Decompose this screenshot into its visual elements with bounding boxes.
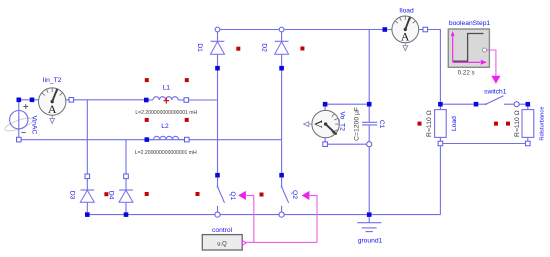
svg-text:Iload: Iload — [399, 7, 414, 14]
red marker Rdisturbance — [506, 122, 510, 126]
svg-text:control: control — [212, 227, 233, 234]
Q1 top pin — [215, 173, 220, 178]
Q2 bottom pin — [279, 212, 284, 217]
svg-text:0.22 s: 0.22 s — [458, 70, 475, 77]
red marker D2 — [300, 47, 304, 51]
diode D2 — [275, 32, 289, 66]
Rdisturbance top pin — [526, 102, 531, 107]
red marker Q1 — [196, 192, 200, 196]
red marker L1 top-left — [145, 78, 149, 82]
D4 top pin — [124, 174, 129, 179]
junction capacitor bottom node — [367, 142, 372, 147]
svg-text:D1: D1 — [196, 43, 203, 52]
wire Load bottom to Rdisturbance bottom — [443, 143, 528, 145]
block control — [202, 235, 246, 250]
wire ammeter to L1 — [74, 99, 147, 101]
L1 right pin — [184, 98, 189, 103]
svg-text:L=2.200000000000001 mH: L=2.200000000000001 mH — [135, 110, 197, 116]
svg-text:booleanStep1: booleanStep1 — [449, 20, 491, 27]
switch1 left pin — [474, 102, 479, 107]
Q1 bottom pin — [215, 212, 220, 217]
svg-text:C=1200 µF: C=1200 µF — [354, 107, 361, 141]
voltmeter bottom pin — [323, 142, 328, 147]
wire voltmeter bottom to capacitor bottom — [328, 143, 367, 145]
red marker Q2 — [260, 193, 264, 197]
wire bottom rail — [87, 214, 440, 216]
red origin cross of L1 — [163, 98, 169, 104]
block booleanStep1 — [448, 29, 489, 67]
wire node down to D3 — [86, 100, 88, 174]
ammeter right pin — [69, 98, 74, 103]
resistor Rdisturbance — [522, 107, 534, 142]
wire branch up to Q2 — [310, 195, 317, 242]
red marker Load — [418, 122, 422, 126]
L1 left pin — [144, 98, 149, 103]
inductor L1 — [149, 97, 184, 100]
wire capacitor bottom down to ground junction — [368, 147, 370, 212]
svg-text:R=110 Ω: R=110 Ω — [426, 110, 433, 137]
wire Iload right to switch node — [428, 30, 441, 102]
red marker L1 bottom-left — [145, 118, 149, 122]
ammeter Iin_T2 — [34, 88, 71, 124]
Iload left pin — [383, 27, 388, 32]
svg-text:L1: L1 — [163, 84, 171, 91]
resistor Load — [435, 107, 447, 142]
svg-text:D3: D3 — [69, 191, 76, 200]
wire switch node to switch1 — [443, 103, 474, 105]
junction switch node — [438, 102, 443, 107]
red marker switch1 — [494, 122, 498, 126]
switch Q2 — [281, 178, 289, 212]
arrow to Q1 — [238, 191, 246, 200]
D3 top pin — [85, 174, 90, 179]
Iload right pin — [423, 27, 428, 32]
wire rail up to Load bottom — [439, 146, 441, 215]
diode D3 — [80, 179, 94, 212]
wire L2 row down to D4 — [125, 140, 127, 174]
wire L2 row from source bottom to D2 column — [19, 139, 282, 141]
pink signal wire control to Q1 and Q2 — [247, 241, 318, 243]
source top pin — [17, 98, 22, 103]
red marker D4 — [145, 192, 149, 196]
switch switch1 — [478, 96, 514, 105]
svg-text:V: V — [312, 120, 326, 129]
wire top rail D1 to Iload — [218, 29, 385, 31]
pink signal wire booleanStep1 to switch1 — [487, 50, 496, 76]
ammeter Iload — [387, 16, 423, 51]
red marker L1 top-right — [185, 78, 189, 82]
svg-text:switch1: switch1 — [484, 88, 507, 95]
svg-text:R=110 Ω: R=110 Ω — [514, 110, 521, 137]
switch1 right pin — [514, 102, 519, 107]
D2 bottom pin — [279, 66, 284, 71]
arrow to Q2 — [302, 191, 310, 200]
wire D2 bottom to Q2 top — [281, 70, 283, 173]
junction capacitor top node — [367, 102, 372, 107]
wire D1 bottom to Q1 top — [217, 70, 219, 173]
red marker L1 bottom-right — [185, 118, 189, 122]
svg-text:C1: C1 — [378, 120, 385, 129]
switch Q1 — [217, 178, 225, 212]
svg-text:Q1: Q1 — [229, 191, 236, 200]
D1 bottom pin — [215, 66, 220, 71]
wire voltmeter top to capacitor node — [328, 103, 367, 105]
red marker D3 — [104, 192, 108, 196]
svg-text:Iin_T2: Iin_T2 — [43, 77, 62, 84]
svg-text:A: A — [48, 102, 57, 116]
svg-text:L=2.200000000000001 mH: L=2.200000000000001 mH — [135, 150, 197, 156]
svg-text:u.Q: u.Q — [217, 241, 227, 248]
D4 bottom pin — [124, 212, 129, 217]
wire branch up to Q1 — [246, 195, 254, 242]
svg-text:D2: D2 — [260, 43, 267, 52]
wire switch1 right to Rdisturbance top — [518, 103, 526, 105]
voltmeter top pin — [323, 102, 328, 107]
arrow to switch1 — [491, 76, 500, 84]
voltage source VinAC — [3, 100, 34, 137]
wire L1 to D1 column — [189, 99, 218, 101]
D2 top pin — [279, 27, 284, 32]
L2 left pin — [145, 137, 150, 142]
inductor L2 — [149, 136, 184, 139]
svg-text:A: A — [401, 30, 410, 44]
svg-text:Q2: Q2 — [291, 190, 298, 199]
Q2 top pin — [279, 173, 284, 178]
svg-text:D4: D4 — [108, 191, 115, 200]
wire top rail down to capacitor node — [368, 30, 370, 103]
Rdisturbance bottom pin — [526, 141, 531, 146]
svg-text:VinAC: VinAC — [31, 115, 38, 134]
ammeter left pin — [30, 98, 35, 103]
svg-text:Vo_T2: Vo_T2 — [339, 112, 346, 132]
svg-text:L2: L2 — [161, 123, 169, 130]
svg-text:Rdisturbance: Rdisturbance — [540, 107, 546, 141]
diode D4 — [119, 179, 133, 212]
diode D1 — [211, 32, 225, 66]
svg-text:Load: Load — [451, 116, 458, 131]
ground ground1 — [357, 217, 381, 232]
source bottom pin — [17, 137, 22, 142]
D1 top pin — [215, 27, 220, 32]
D3 bottom pin — [85, 212, 90, 217]
junction ground node — [367, 212, 372, 217]
red marker D1 — [236, 47, 240, 51]
wire source top to ammeter — [19, 99, 32, 101]
voltmeter Vo_T2 — [304, 107, 340, 142]
Load bottom pin — [438, 141, 443, 146]
svg-text:ground1: ground1 — [358, 237, 383, 244]
capacitor C1 — [362, 107, 377, 142]
L2 right pin — [185, 137, 190, 142]
